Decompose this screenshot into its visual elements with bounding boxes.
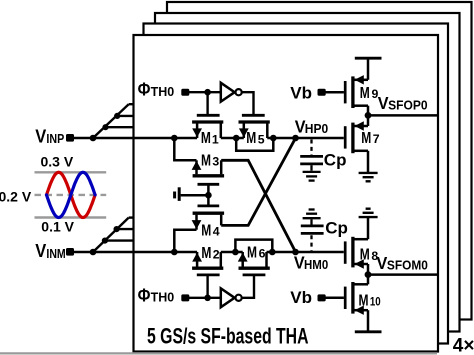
ground for M7	[359, 173, 378, 181]
svg-text:M: M	[201, 130, 211, 147]
waveform blue sine	[47, 172, 96, 217]
svg-text:1: 1	[212, 132, 219, 146]
pin Vb bottom	[318, 294, 326, 301]
transistor M6 dummy switch	[238, 252, 270, 275]
svg-text:Vb: Vb	[290, 83, 312, 102]
wire M1 drain to M5	[221, 137, 244, 140]
inverter U1 top	[221, 83, 235, 102]
wire M3 drain cross-couple to VHM0	[221, 160, 295, 252]
svg-text:Φ: Φ	[138, 284, 151, 305]
svg-text:M: M	[360, 247, 370, 264]
wire clock bottom	[188, 297, 221, 299]
junction dots bottom rail	[90, 249, 97, 256]
waveform top level line 0.3V	[35, 171, 107, 173]
inverter U2 bottom	[221, 288, 235, 307]
wire output VSFOM0	[368, 273, 438, 276]
clock pin PHI_TH0 top	[181, 89, 189, 96]
input pin VINP	[66, 134, 74, 142]
wire M4 drain cross-couple to VHP0	[221, 138, 295, 225]
svg-text:M: M	[359, 292, 369, 309]
wire M2 drain to M6	[221, 251, 243, 254]
wire M5 to node VHP0	[267, 137, 344, 140]
wire M2 gate riser	[206, 274, 208, 298]
ground for M8 (flipped)	[359, 209, 378, 217]
junction dot bias node	[205, 192, 212, 199]
svg-text:0.2 V: 0.2 V	[0, 188, 32, 204]
transistor M5 dummy switch	[239, 115, 270, 138]
wire fan stub 2	[117, 115, 134, 117]
capacitor Cp top	[300, 156, 323, 170]
svg-text:Cp: Cp	[324, 151, 347, 170]
wire fan stub 5	[117, 228, 134, 230]
svg-text:M: M	[361, 130, 371, 147]
wire clock top	[188, 91, 221, 93]
transistor M9 current source	[325, 59, 368, 115]
junction dots top rail	[90, 135, 97, 142]
baseline gray rule	[0, 352, 437, 354]
wire fan stub 3	[129, 103, 134, 105]
waveform center dashed line 0.2V	[35, 194, 107, 196]
supply rail bar M9	[355, 57, 382, 60]
svg-text:0.1 V: 0.1 V	[41, 218, 74, 234]
transistor M3 feedthrough-cancel	[192, 160, 225, 195]
svg-text:7: 7	[373, 132, 380, 146]
wire M5 shorting loop	[236, 138, 273, 151]
wire M1 gate drop	[206, 92, 208, 116]
svg-text:5: 5	[258, 132, 265, 146]
wire M6 shorting loop	[235, 240, 272, 252]
svg-text:M: M	[247, 244, 257, 261]
wire M6 to node VHM0	[267, 251, 344, 254]
capacitor Cp bottom	[301, 219, 324, 233]
svg-text:TH0: TH0	[151, 290, 175, 305]
capacitor Cp bottom dashed lead	[310, 235, 312, 250]
junction dots top fan	[102, 124, 108, 130]
wire VINM fan diagonal to stacked slices	[93, 218, 129, 252]
wire inverter U1 output	[242, 92, 254, 116]
svg-text:Vb: Vb	[290, 288, 312, 307]
ground for Cp bottom (flipped)	[303, 210, 321, 219]
bias source symbol	[175, 187, 209, 201]
svg-text:4: 4	[213, 225, 220, 239]
svg-text:4×: 4×	[453, 336, 474, 355]
clock pin PHI_TH0 bottom	[181, 294, 189, 301]
wire VINM to M2 source	[73, 251, 197, 253]
supply rail bar M10	[355, 330, 382, 333]
sheet 1 (front THA slice)	[134, 35, 439, 352]
svg-text:3: 3	[212, 155, 219, 169]
wire M4 source branch to VINM rail	[174, 230, 196, 252]
sheet 3 (THA slice)	[155, 13, 460, 332]
svg-text:M: M	[201, 222, 211, 239]
svg-text:V: V	[35, 241, 46, 261]
svg-text:0.3 V: 0.3 V	[41, 154, 74, 170]
svg-text:2: 2	[213, 247, 220, 261]
svg-text:5 GS/s SF-based THA: 5 GS/s SF-based THA	[147, 324, 309, 349]
svg-text:6: 6	[259, 247, 266, 261]
svg-text:SFOM0: SFOM0	[387, 258, 428, 273]
svg-text:Φ: Φ	[138, 79, 151, 100]
transistor M10 current source	[325, 275, 368, 331]
wire fan stub 4	[105, 239, 134, 241]
svg-text:TH0: TH0	[151, 84, 175, 99]
svg-text:V: V	[35, 126, 46, 146]
svg-text:SFOP0: SFOP0	[388, 98, 428, 113]
junction dot node VSFOP0	[365, 112, 372, 119]
waveform red sine	[47, 172, 96, 217]
inverter U2 bubble	[236, 295, 242, 301]
transistor M8 source follower	[345, 218, 368, 275]
svg-text:M: M	[201, 152, 211, 169]
wire VINP to M1 source	[73, 137, 197, 139]
inverter U1 bubble	[236, 89, 242, 95]
svg-text:M: M	[360, 85, 370, 102]
transistor M2 sampling switch	[192, 252, 223, 275]
svg-text:INM: INM	[46, 246, 65, 261]
transistor M1 sampling switch	[192, 115, 223, 138]
svg-text:10: 10	[370, 295, 381, 309]
svg-text:M: M	[201, 245, 211, 262]
waveform bottom level line 0.1V	[35, 216, 107, 218]
pin Vb top	[318, 89, 326, 96]
svg-text:INP: INP	[46, 131, 64, 146]
wire output VSFOP0	[368, 114, 438, 117]
svg-text:Cp: Cp	[325, 219, 348, 238]
junction dot node VSFOM0	[365, 271, 372, 278]
capacitor Cp top dashed lead	[310, 140, 312, 155]
wire fan stub 6	[129, 216, 134, 218]
svg-text:HM0: HM0	[304, 257, 328, 272]
transistor M7 source follower	[345, 115, 368, 172]
svg-text:M: M	[246, 130, 256, 147]
transistor M4 feedthrough-cancel	[192, 195, 225, 230]
input pin VINM	[66, 248, 74, 256]
svg-text:HP0: HP0	[305, 121, 328, 136]
junction dot clock bottom	[204, 295, 211, 302]
sheet 4 (backmost THA slice)	[167, 2, 472, 320]
wire inverter U2 output	[242, 274, 254, 298]
wire fan stub 1	[106, 126, 134, 128]
junction dots bottom fan	[102, 238, 108, 244]
ground for Cp top	[303, 172, 321, 181]
junction dot clock top	[204, 89, 211, 96]
wire M1 source branch to M3	[174, 138, 196, 160]
sheet 2 (THA slice)	[144, 24, 449, 344]
wire VINP fan diagonal to stacked slices	[93, 104, 129, 138]
